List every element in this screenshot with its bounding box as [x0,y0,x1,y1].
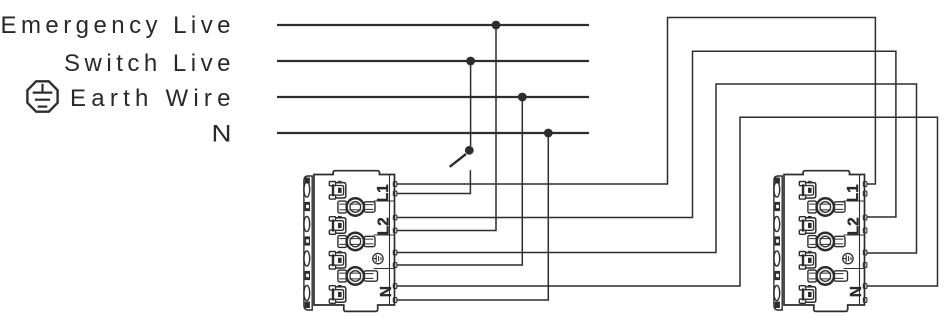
svg-text:L2: L2 [376,217,393,235]
J2 body outline [784,171,865,312]
J2 push-in terminal pole 2 [799,217,816,235]
J1 screw clamp 2 [338,233,375,250]
junction dot on Emergency Live bus [492,21,501,30]
J2 push-in terminal pole 1 [799,181,816,199]
J2 circled earth mark [843,253,853,263]
J2 screw clamp 2 [808,233,845,250]
J1 circled earth mark [373,253,383,263]
wire: J1 L2 to J2 L2 (loop over top) [397,51,896,217]
junction dot on Earth Wire bus [518,93,527,102]
junction dot on N bus [544,129,553,138]
J1 screw clamp 1 [338,198,375,215]
svg-text:N: N [212,121,232,148]
wire: Earth drop to J1 earth pole [397,97,523,265]
wire: J1 N to J2 N (loop over top) [397,117,938,286]
junction dot on Switch Live bus [466,57,475,66]
earth symbol (octagon with ground sign) [27,81,57,111]
wire: J1 L1 to J2 L1 (loop over top) [397,18,876,185]
wire: Switch Live drop to switch pivot [470,61,472,146]
J1 left mounting rail [304,176,312,310]
bus wire: Emergency Live [277,24,589,26]
J1 push-in terminal pole 3 [329,251,346,269]
svg-text:Emergency Live: Emergency Live [1,12,231,39]
svg-text:L1: L1 [375,184,392,202]
svg-text:Switch Live: Switch Live [64,50,231,77]
svg-text:Earth Wire: Earth Wire [70,85,231,112]
J1 body outline [314,171,395,312]
wire: switch lower contact to J1 pole L1 [397,170,471,193]
J1 push-in terminal pole 4 [329,286,346,304]
wire: N drop to J1 pole N [397,133,549,300]
bus wire: Earth Wire [277,96,589,98]
J2 push-in terminal pole 3 [799,251,816,269]
J2 left mounting rail [774,176,782,310]
J2 screw clamp 1 [808,198,845,215]
J1 push-in terminal pole 1 [329,181,346,199]
wire: Emergency Live drop to J1 pole L2 [397,25,497,231]
J1 screw clamp 3 [338,267,378,284]
svg-text:L2: L2 [846,217,863,235]
svg-text:N: N [848,286,865,297]
wire: J1 earth to J2 earth (loop over top) [397,84,917,253]
bus wire: Switch Live [277,60,589,62]
svg-text:N: N [378,286,395,297]
terminal block connector J1 [304,171,397,312]
svg-text:L1: L1 [845,184,862,202]
J2 screw clamp 3 [808,267,848,284]
terminal block connector J2 [774,171,867,312]
switch S1 pivot dot [465,146,474,155]
J2 push-in terminal pole 4 [799,286,816,304]
J1 push-in terminal pole 2 [329,217,346,235]
switch S1 blade (open) [450,154,466,167]
bus wire: N [277,132,589,134]
